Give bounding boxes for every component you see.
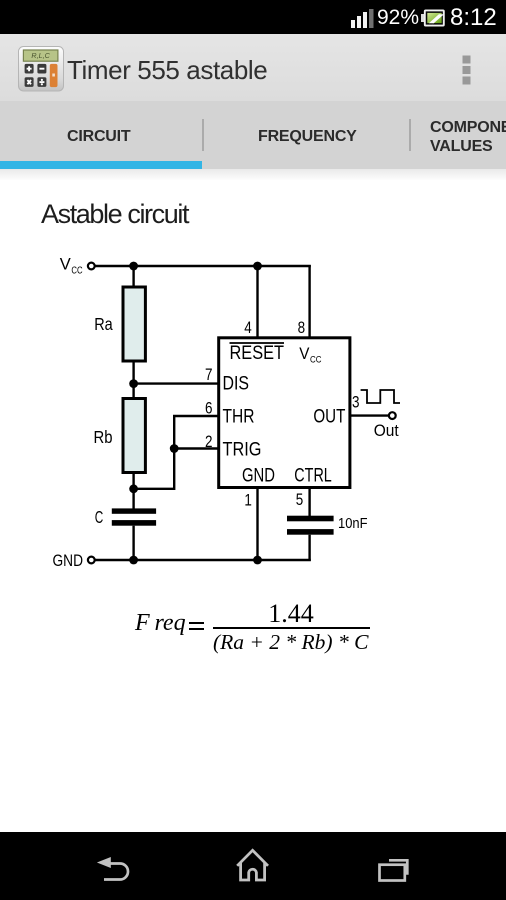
svg-text:THR: THR bbox=[223, 406, 255, 428]
svg-text:TRIG: TRIG bbox=[223, 438, 262, 460]
svg-text:OUT: OUT bbox=[313, 406, 345, 428]
wire THR riser bbox=[174, 416, 220, 490]
svg-text:Rb: Rb bbox=[94, 427, 113, 447]
action bar bbox=[0, 34, 506, 101]
svg-text:2: 2 bbox=[205, 432, 213, 451]
node Rb-C junction bbox=[129, 484, 138, 493]
svg-text:6: 6 bbox=[205, 399, 213, 418]
signal bars icon bbox=[351, 9, 374, 28]
overflow menu bbox=[461, 55, 473, 89]
svg-text:CC: CC bbox=[310, 355, 322, 366]
IC 555 timer body bbox=[219, 338, 350, 488]
svg-text:DIS: DIS bbox=[223, 372, 250, 394]
wire Ra to node bbox=[132, 360, 134, 384]
Out terminal bbox=[389, 412, 396, 419]
node ground-left junction bbox=[129, 556, 138, 565]
svg-text:Out: Out bbox=[374, 421, 399, 440]
svg-text:7: 7 bbox=[205, 365, 213, 384]
node ground-pin1 junction bbox=[253, 556, 262, 565]
label Vcc pin bbox=[299, 345, 321, 366]
svg-text:8: 8 bbox=[298, 318, 306, 337]
wire top rail bbox=[95, 265, 311, 267]
Vcc terminal bbox=[88, 263, 95, 270]
svg-text:GND: GND bbox=[242, 465, 275, 487]
nav bar bbox=[0, 832, 506, 900]
status bar bbox=[0, 0, 506, 34]
GND terminal bbox=[88, 557, 95, 564]
wire pin8 drop bbox=[308, 265, 310, 337]
wire Vcc to Ra bbox=[132, 266, 134, 287]
formula Freq = 1.44 / ((Ra+2*Rb)*C) bbox=[0, 595, 506, 665]
wire OUT bbox=[351, 414, 388, 416]
svg-text:10nF: 10nF bbox=[338, 516, 368, 532]
label RESET with overline bbox=[230, 342, 285, 364]
wire ground rail bbox=[95, 559, 311, 561]
resistor Rb bbox=[123, 399, 145, 473]
svg-text:5: 5 bbox=[296, 490, 304, 509]
wire pin4 drop bbox=[256, 266, 258, 337]
battery icon bbox=[421, 10, 444, 26]
node junction top-mid bbox=[253, 262, 262, 271]
wire cap 10nF to ground rail bbox=[308, 535, 310, 561]
recents icon bbox=[380, 860, 408, 880]
square wave symbol bbox=[361, 390, 400, 403]
svg-text:R,L,C: R,L,C bbox=[31, 51, 50, 60]
svg-text:Ra: Ra bbox=[94, 314, 113, 334]
resistor Ra bbox=[123, 287, 145, 361]
heading bbox=[41, 199, 188, 230]
home icon bbox=[237, 850, 268, 880]
svg-text:CTRL: CTRL bbox=[294, 465, 332, 487]
svg-text:1: 1 bbox=[244, 491, 252, 510]
svg-text:3: 3 bbox=[352, 393, 360, 412]
svg-text:4: 4 bbox=[244, 318, 252, 337]
tab bar bbox=[0, 101, 506, 169]
node DIS junction bbox=[129, 379, 138, 388]
capacitor C10nF bbox=[287, 516, 334, 535]
svg-text:V: V bbox=[299, 345, 309, 363]
Vcc label bbox=[60, 256, 83, 277]
node junction top-left bbox=[129, 262, 138, 271]
capacitor C bbox=[112, 508, 156, 525]
wire DIS bbox=[134, 382, 220, 384]
svg-text:C: C bbox=[95, 507, 104, 527]
wire pin1 drop bbox=[256, 487, 258, 560]
svg-text:RESET: RESET bbox=[230, 342, 285, 364]
back icon bbox=[97, 857, 128, 880]
wire node to THR/TRIG riser bbox=[134, 488, 175, 490]
wire pin5 drop bbox=[308, 487, 310, 516]
svg-text:V: V bbox=[60, 256, 71, 274]
wire node to cap C bbox=[132, 489, 134, 509]
app icon calculator bbox=[18, 46, 64, 92]
svg-text:CC: CC bbox=[71, 265, 82, 276]
node TRIG junction bbox=[170, 444, 179, 453]
wire Rb to node bbox=[132, 471, 134, 489]
wire cap C to ground rail bbox=[132, 526, 134, 560]
svg-text:GND: GND bbox=[53, 551, 84, 570]
circuit schematic bbox=[0, 245, 440, 585]
wire TRIG bbox=[174, 447, 220, 449]
wire node to Rb bbox=[132, 384, 134, 398]
